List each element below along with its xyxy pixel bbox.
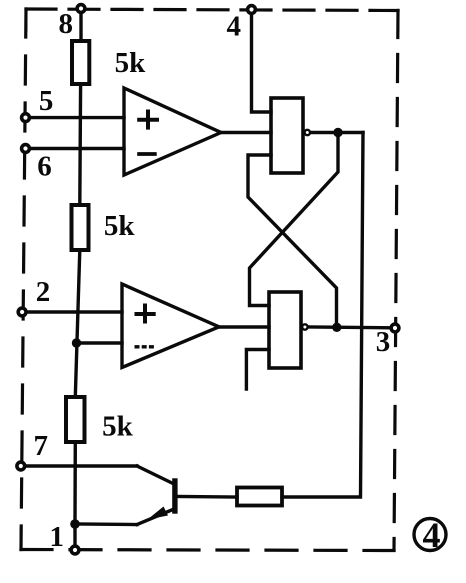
svg-text:4: 4 (423, 515, 441, 555)
terminal pin 6 (22, 145, 30, 153)
resistor R2 5k (72, 205, 89, 250)
resistor base (horizontal) (237, 488, 282, 506)
junction dot upper latch output (333, 128, 342, 137)
terminal pin 7 (17, 462, 25, 470)
border corner bottom-left (21, 529, 42, 550)
svg-text:5k: 5k (102, 411, 134, 443)
dashed border bottom (21, 550, 394, 551)
resistor R3 5k (66, 397, 85, 442)
border corner top-right (378, 11, 398, 31)
wire: long vertical from upper output down to base resistor (282, 133, 363, 498)
wire: lower latch output to pin3 (308, 325, 390, 329)
wire: pin2 to comp2 plus input (26, 310, 122, 313)
wire: collector diagonal (137, 466, 174, 484)
junction dot emitter/pin1 (70, 519, 80, 529)
svg-text:2: 2 (36, 276, 51, 308)
op-amp comparator C1 triangle (124, 88, 221, 175)
dashed border top (26, 9, 398, 11)
transistor Q1 emitter arrow (148, 507, 169, 520)
wire: upper latch output to long vertical (310, 131, 363, 134)
junction dot lower latch output (332, 323, 341, 332)
wire: R2 to R3 (crosses pin2 wire, node at comp2 minus) (75, 250, 80, 397)
wire: cross-couple upper output to lower latch input (250, 133, 339, 306)
figure number circle 4 (414, 515, 446, 555)
wire: emitter node to pin1 (73, 524, 76, 546)
svg-text:5k: 5k (115, 47, 147, 79)
wire: cross-couple upper latch input to lower output (248, 155, 337, 327)
comparator C2 minus sign (135, 345, 155, 348)
dashed border right (394, 11, 398, 551)
wire: pin7 to collector (25, 464, 137, 467)
comparator C1 minus sign (137, 152, 157, 156)
svg-text:3: 3 (376, 326, 391, 358)
inverter bubble lower latch (302, 324, 307, 329)
svg-text:1: 1 (50, 521, 65, 553)
svg-text:6: 6 (37, 151, 52, 183)
op-amp comparator C2 triangle (122, 284, 219, 368)
wire: R1 to R2 (crosses pin5, pin6 wires) (78, 84, 82, 205)
transistor Q1 base bar (172, 481, 177, 511)
svg-text:5: 5 (39, 85, 54, 117)
terminal pin 4 (248, 6, 256, 14)
latch block lower (269, 292, 301, 368)
inverter bubble upper latch (305, 130, 310, 135)
wire: emitter to ground node (75, 522, 137, 526)
svg-text:4: 4 (227, 11, 242, 43)
comparator C2 plus sign (135, 304, 156, 324)
dashed border left (21, 9, 26, 550)
svg-text:5k: 5k (104, 210, 136, 242)
wire: divider chain pin8 to R1 (79, 12, 82, 41)
wire: pin5 to comp1 plus input (29, 116, 124, 119)
resistor R1 5k (72, 41, 89, 84)
terminal pin 8 (77, 5, 85, 13)
wire: divider node to comp2 minus input (76, 341, 122, 344)
wire: emitter diagonal (137, 509, 174, 525)
junction dot divider/comp2-minus (72, 338, 81, 347)
wire: R3 to emitter node (73, 442, 77, 524)
svg-text:7: 7 (33, 430, 48, 462)
terminal pin 5 (22, 114, 30, 122)
wire: base to base resistor (177, 495, 237, 499)
terminal pin 2 (18, 308, 26, 316)
comparator C1 plus sign (137, 110, 159, 130)
wire: comp1 output to upper latch (221, 131, 271, 134)
wire: comp2 output to lower latch (219, 325, 269, 328)
terminal pin 3 (391, 324, 399, 332)
wire: lower latch hanging stub (246, 350, 269, 390)
latch block upper (271, 98, 303, 173)
border corner bottom-right (373, 540, 394, 551)
wire: pin4 down to upper latch (252, 13, 272, 112)
border corner top-left (26, 9, 46, 30)
terminal pin 1 (71, 546, 79, 554)
svg-text:8: 8 (58, 8, 73, 40)
wire: pin6 to comp1 minus input (29, 147, 124, 150)
